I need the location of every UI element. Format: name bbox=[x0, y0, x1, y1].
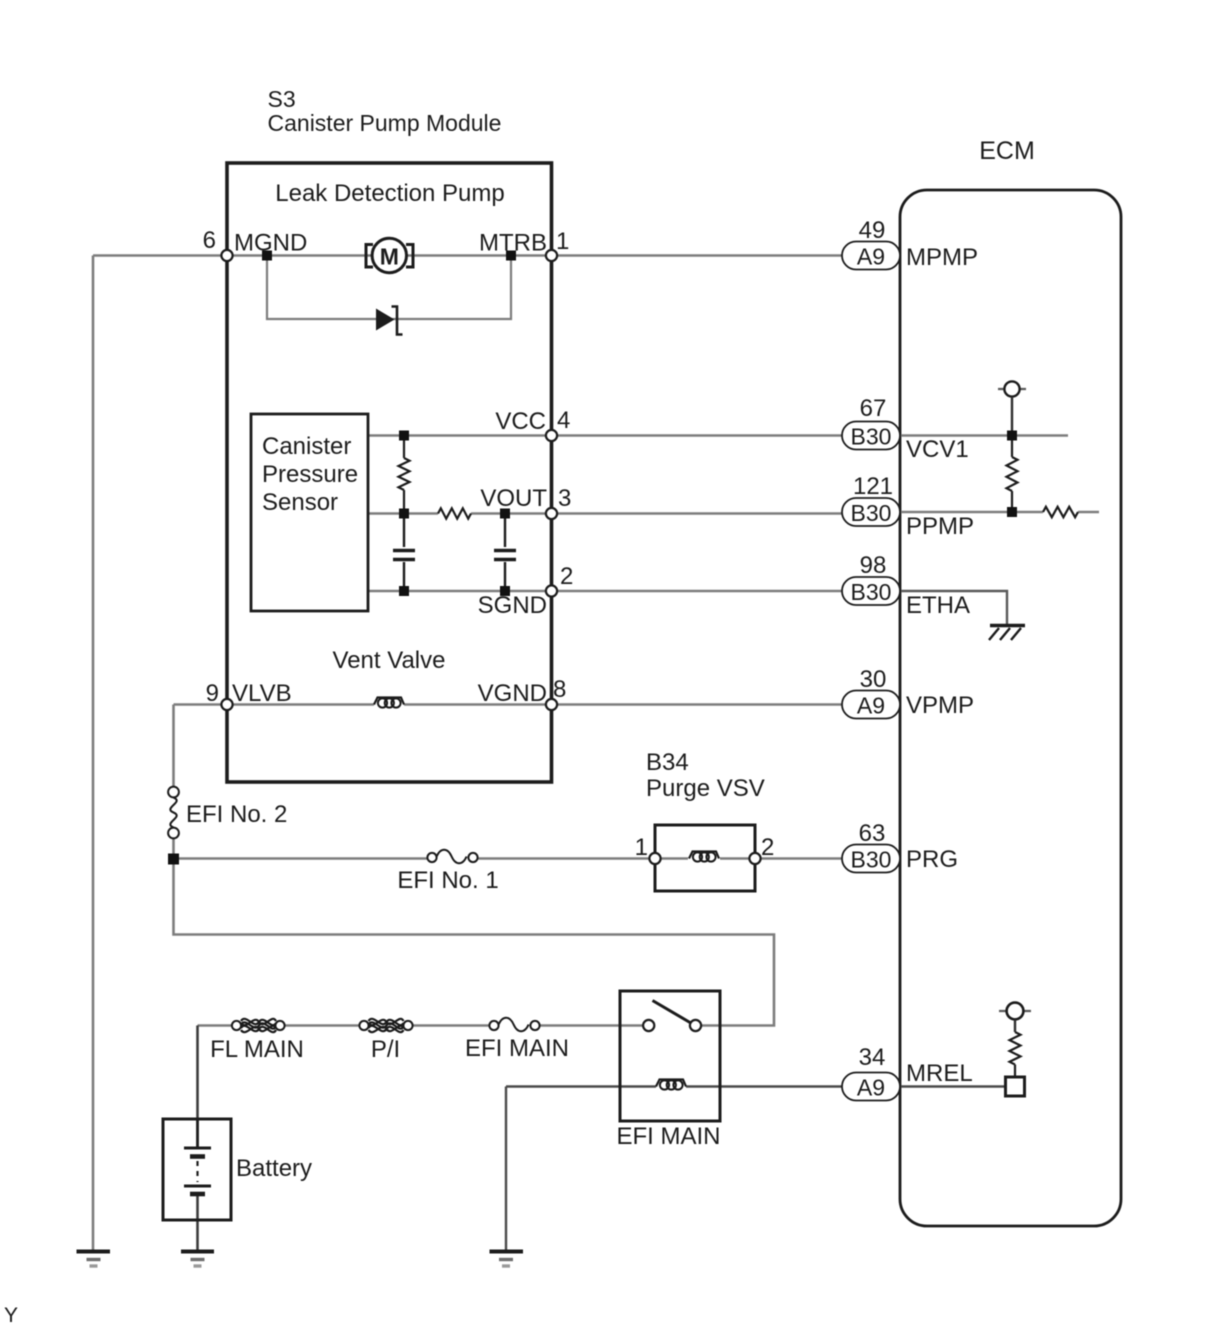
wire: VCC row bbox=[368, 434, 842, 437]
ground G3 relay coil bbox=[490, 1252, 524, 1267]
svg-text:ETHA: ETHA bbox=[906, 592, 970, 619]
junction dot EFI No.2 / EFI No.1 bbox=[168, 854, 179, 865]
connector oval B30 pin 63 PRG bbox=[842, 845, 900, 873]
junction VCV1-R3 bbox=[1007, 431, 1017, 441]
svg-text:FL MAIN: FL MAIN bbox=[210, 1036, 304, 1063]
svg-text:MREL: MREL bbox=[906, 1060, 973, 1087]
connector oval B30 pin 67 VCV1 bbox=[842, 422, 900, 450]
box: ECM rounded bbox=[900, 190, 1121, 1226]
wire: battery lower lead to ground bbox=[196, 1194, 199, 1251]
svg-text:4: 4 bbox=[557, 407, 570, 434]
svg-text:VCV1: VCV1 bbox=[906, 436, 969, 463]
svg-text:121: 121 bbox=[853, 473, 893, 500]
ECM internals: VCV1 circuit bbox=[901, 381, 1068, 512]
wire: left branch down to EFI No.2 fuse bbox=[172, 705, 175, 787]
connector oval B30 pin 121 PPMP bbox=[842, 498, 900, 526]
svg-text:B30: B30 bbox=[851, 500, 892, 526]
svg-text:SGND: SGND bbox=[478, 592, 547, 619]
pin 9 VLVB bbox=[221, 699, 232, 710]
terminal circle bbox=[998, 388, 1026, 390]
wire: VOUT row left part bbox=[368, 512, 438, 515]
ECM internals: PPMP extension with resistor R4 bbox=[901, 507, 1099, 517]
connector oval B30 pin 98 ETHA bbox=[842, 577, 900, 605]
box: Battery bbox=[163, 1119, 231, 1220]
wire: battery vertical bbox=[196, 1026, 199, 1149]
box: EFI MAIN relay bbox=[620, 991, 720, 1121]
svg-text:34: 34 bbox=[859, 1044, 886, 1071]
ground G2 battery bbox=[181, 1252, 214, 1267]
connector oval A9 pin 30 VPMP bbox=[842, 691, 900, 719]
svg-text:A9: A9 bbox=[857, 1075, 885, 1101]
svg-text:MGND: MGND bbox=[234, 230, 307, 257]
capacitor C1 bbox=[393, 514, 415, 592]
svg-text:B30: B30 bbox=[851, 424, 892, 450]
svg-text:Y: Y bbox=[4, 1304, 18, 1327]
pin 1 Purge VSV bbox=[649, 853, 660, 864]
resistor R2 VOUT series horizontal bbox=[438, 508, 471, 518]
pin 2 Purge VSV bbox=[749, 853, 760, 864]
wire: motor bypass loop bbox=[267, 256, 511, 320]
fuse F3 EFI MAIN bbox=[489, 1018, 539, 1032]
wire: MGND/MTRB row from left drop to ECM A9 bbox=[93, 254, 842, 257]
svg-text:Pressure: Pressure bbox=[262, 461, 358, 488]
box: Canister Pressure Sensor bbox=[251, 414, 368, 611]
wire: relay coil row and drop to ground bbox=[506, 1087, 842, 1252]
svg-text:2: 2 bbox=[560, 563, 573, 590]
svg-text:Leak Detection Pump: Leak Detection Pump bbox=[275, 180, 504, 207]
pin 1 MTRB bbox=[546, 250, 557, 261]
svg-text:98: 98 bbox=[860, 552, 887, 579]
box: Leak Detection Pump module S3 bbox=[227, 163, 552, 782]
wire VCV1 extension bbox=[901, 434, 1068, 436]
svg-text:8: 8 bbox=[553, 676, 566, 703]
junction VCC-R1 bbox=[399, 431, 409, 441]
diode D1 bypass zener bbox=[376, 307, 403, 335]
junction SGND-C2 bbox=[500, 586, 510, 596]
svg-text:VLVB: VLVB bbox=[232, 680, 292, 707]
junction MTRB-bypass bbox=[506, 251, 516, 261]
svg-text:49: 49 bbox=[859, 217, 886, 244]
ECM internals: MREL circuit bbox=[901, 1003, 1031, 1096]
pin 4 VCC bbox=[546, 430, 557, 441]
svg-text:Canister: Canister bbox=[262, 433, 351, 460]
resistor R3 inside ECM bbox=[1007, 436, 1018, 513]
wire: SGND row bbox=[368, 590, 842, 593]
svg-text:S3: S3 bbox=[268, 86, 296, 112]
motor M1 leak detection pump motor bbox=[366, 238, 413, 272]
svg-text:3: 3 bbox=[558, 485, 571, 512]
svg-text:A9: A9 bbox=[857, 693, 885, 719]
battery cell symbol bbox=[184, 1119, 211, 1194]
svg-text:ECM: ECM bbox=[979, 137, 1035, 165]
svg-text:EFI MAIN: EFI MAIN bbox=[465, 1035, 569, 1062]
svg-text:B30: B30 bbox=[851, 847, 892, 873]
svg-text:EFI MAIN: EFI MAIN bbox=[616, 1123, 720, 1150]
svg-text:Vent Valve: Vent Valve bbox=[333, 647, 446, 674]
wire: VOUT row right part bbox=[471, 512, 842, 515]
svg-text:1: 1 bbox=[635, 834, 648, 861]
svg-text:B34: B34 bbox=[646, 749, 689, 776]
svg-text:2: 2 bbox=[761, 834, 774, 861]
svg-text:B30: B30 bbox=[851, 579, 892, 605]
svg-text:P/I: P/I bbox=[371, 1036, 400, 1063]
svg-text:MPMP: MPMP bbox=[906, 244, 978, 271]
svg-text:M: M bbox=[380, 244, 399, 270]
svg-text:PRG: PRG bbox=[906, 846, 958, 873]
svg-text:A9: A9 bbox=[857, 244, 885, 270]
inductor L1 vent valve coil bbox=[374, 698, 404, 708]
wire: VLVB/VGND row to ECM bbox=[174, 703, 843, 706]
wire: EFI No.1 row bbox=[174, 857, 656, 860]
connector oval A9 pin 34 MREL bbox=[842, 1073, 900, 1101]
svg-text:63: 63 bbox=[859, 820, 886, 847]
wire: far-left vertical down to ground bbox=[92, 256, 95, 1252]
svg-text:67: 67 bbox=[860, 395, 887, 422]
pin 3 VOUT bbox=[546, 508, 557, 519]
junction MGND-bypass bbox=[262, 251, 272, 261]
svg-text:EFI No. 1: EFI No. 1 bbox=[397, 867, 498, 894]
junction SGND-C1 bbox=[399, 586, 409, 596]
wire: battery feed row bbox=[198, 1024, 644, 1027]
ground G1 far left bbox=[77, 1252, 111, 1267]
junction VOUT-C2 bbox=[500, 509, 510, 519]
wire: below fuse to junction and on down bbox=[174, 839, 775, 1026]
resistor R1 sensor pull-up vertical bbox=[399, 436, 410, 514]
pin 2 SGND bbox=[546, 585, 557, 596]
ECM internals: ETHA to chassis ground bbox=[901, 591, 1025, 640]
svg-text:Sensor: Sensor bbox=[262, 489, 338, 516]
svg-text:MTRB: MTRB bbox=[479, 230, 547, 257]
svg-text:9: 9 bbox=[206, 680, 219, 707]
connector oval A9 pin 49 MPMP bbox=[842, 242, 900, 270]
inductor L2 purge VSV coil bbox=[689, 852, 719, 862]
junction VOUT-R1-C1 bbox=[399, 509, 409, 519]
svg-text:VOUT: VOUT bbox=[480, 485, 547, 512]
wire: purge VSV interior and to PRG bbox=[655, 857, 842, 860]
svg-text:Canister Pump Module: Canister Pump Module bbox=[268, 110, 502, 136]
svg-text:VPMP: VPMP bbox=[906, 692, 974, 719]
svg-text:VGND: VGND bbox=[478, 680, 547, 707]
svg-text:30: 30 bbox=[860, 666, 887, 693]
fusible link P/I bbox=[359, 1019, 412, 1032]
svg-text:Battery: Battery bbox=[236, 1155, 312, 1182]
svg-text:6: 6 bbox=[203, 227, 216, 254]
svg-text:PPMP: PPMP bbox=[906, 513, 974, 540]
svg-text:VCC: VCC bbox=[495, 408, 546, 435]
fuse F2 EFI No.1 horizontal bbox=[427, 850, 477, 864]
pin 8 VGND bbox=[546, 699, 557, 710]
pin 6 MGND bbox=[221, 250, 232, 261]
box: Purge VSV B34 bbox=[655, 825, 755, 891]
capacitor C2 bbox=[494, 514, 516, 592]
inductor L3 relay coil bbox=[656, 1080, 686, 1090]
svg-text:EFI No. 2: EFI No. 2 bbox=[186, 801, 287, 828]
junction PPMP-R3 bbox=[1007, 507, 1017, 517]
fuse F1 EFI No.2 vertical bbox=[168, 787, 179, 839]
relay switch contacts and blade bbox=[643, 1001, 701, 1032]
svg-text:1: 1 bbox=[556, 228, 569, 255]
fusible link FL MAIN bbox=[232, 1019, 285, 1032]
svg-text:Purge VSV: Purge VSV bbox=[646, 775, 765, 802]
